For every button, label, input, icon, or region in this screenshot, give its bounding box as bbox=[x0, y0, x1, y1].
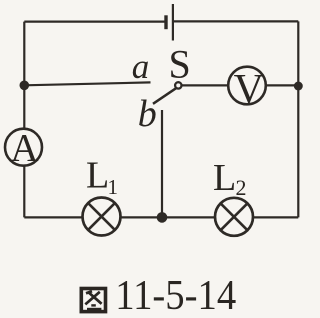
voltmeter V1 circle bbox=[228, 67, 266, 105]
lamp L2 circle bbox=[215, 198, 253, 236]
svg-text:L: L bbox=[86, 154, 109, 196]
svg-text:b: b bbox=[138, 93, 157, 135]
ammeter A1 circle bbox=[5, 129, 42, 166]
caption hanzi TU (drawn) bbox=[81, 289, 105, 312]
wire top-left (to battery) bbox=[24, 21, 164, 23]
svg-text:A: A bbox=[10, 126, 38, 169]
svg-text:a: a bbox=[132, 47, 150, 86]
lamp L2 cross bbox=[221, 203, 248, 230]
wire right vertical bbox=[297, 21, 299, 217]
wire top-right (battery to right) bbox=[174, 20, 298, 22]
wire middle-left to switch contact a bbox=[24, 82, 150, 85]
wire left vertical bbox=[23, 22, 25, 218]
junction node bottom (b branch meets lamp wire) bbox=[157, 212, 168, 223]
svg-text:1: 1 bbox=[108, 175, 119, 199]
junction node on right wire bbox=[294, 82, 303, 91]
battery cell plate positive (long thin) bbox=[172, 4, 174, 41]
junction node on left wire bbox=[20, 81, 30, 91]
switch S blade bbox=[153, 88, 176, 104]
svg-text:11-5-14: 11-5-14 bbox=[115, 273, 236, 318]
battery cell plate negative (short thick) bbox=[164, 15, 167, 29]
svg-text:V: V bbox=[234, 67, 264, 113]
wire bottom bbox=[24, 216, 298, 218]
svg-text:2: 2 bbox=[236, 175, 247, 200]
wire switch pivot to voltmeter bbox=[181, 84, 247, 86]
wire voltmeter to right bbox=[247, 84, 298, 86]
wire from contact b down to bottom junction bbox=[161, 110, 163, 217]
lamp L1 cross bbox=[88, 203, 115, 230]
svg-text:S: S bbox=[169, 42, 191, 87]
lamp L1 circle bbox=[83, 198, 121, 236]
svg-text:L: L bbox=[213, 157, 236, 199]
switch S pivot circle bbox=[175, 82, 181, 88]
